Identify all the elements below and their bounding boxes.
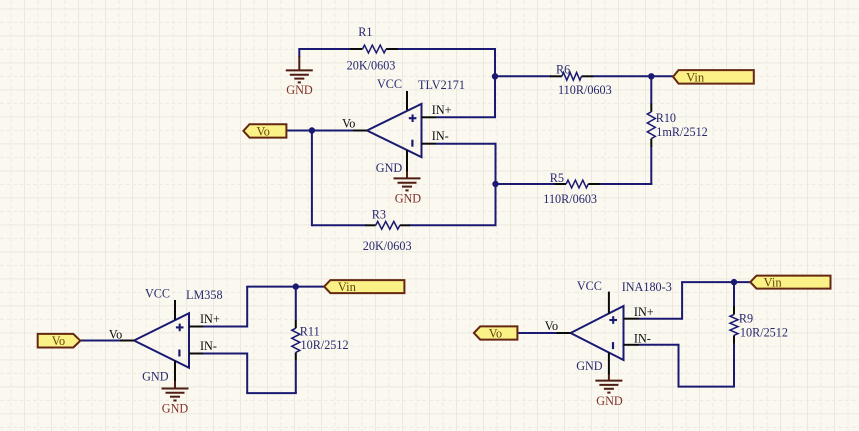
svg-text:R10: R10 bbox=[656, 111, 676, 125]
svg-text:110R/0603: 110R/0603 bbox=[558, 83, 612, 97]
svg-text:GND: GND bbox=[395, 192, 422, 206]
svg-text:R11: R11 bbox=[300, 325, 320, 339]
svg-text:R3: R3 bbox=[372, 208, 386, 222]
svg-text:GND: GND bbox=[142, 370, 169, 384]
svg-text:VCC: VCC bbox=[577, 279, 602, 293]
svg-text:GND: GND bbox=[162, 401, 189, 415]
svg-text:Vin: Vin bbox=[764, 276, 783, 290]
svg-text:110R/0603: 110R/0603 bbox=[543, 192, 597, 206]
svg-text:GND: GND bbox=[376, 161, 403, 175]
svg-text:GND: GND bbox=[596, 394, 623, 408]
svg-text:20K/0603: 20K/0603 bbox=[347, 59, 396, 73]
svg-text:R9: R9 bbox=[739, 312, 753, 326]
svg-text:R6: R6 bbox=[556, 63, 570, 77]
svg-text:1mR/2512: 1mR/2512 bbox=[656, 125, 707, 139]
svg-text:LM358: LM358 bbox=[186, 288, 223, 302]
svg-text:Vo: Vo bbox=[52, 334, 65, 348]
svg-text:GND: GND bbox=[286, 83, 313, 97]
svg-text:VCC: VCC bbox=[145, 287, 170, 301]
svg-text:20K/0603: 20K/0603 bbox=[363, 239, 412, 253]
svg-text:Vo: Vo bbox=[545, 319, 558, 333]
svg-text:VCC: VCC bbox=[377, 77, 402, 91]
svg-text:IN-: IN- bbox=[432, 129, 449, 143]
svg-text:IN-: IN- bbox=[200, 339, 217, 353]
svg-text:IN-: IN- bbox=[634, 331, 651, 345]
svg-text:10R/2512: 10R/2512 bbox=[740, 325, 788, 339]
svg-text:TLV2171: TLV2171 bbox=[418, 78, 465, 92]
svg-text:R5: R5 bbox=[550, 171, 564, 185]
svg-text:Vo: Vo bbox=[257, 124, 270, 138]
svg-text:IN+: IN+ bbox=[200, 312, 220, 326]
svg-text:Vin: Vin bbox=[338, 280, 357, 294]
svg-text:INA180-3: INA180-3 bbox=[622, 280, 672, 294]
svg-text:IN+: IN+ bbox=[432, 103, 452, 117]
svg-text:IN+: IN+ bbox=[634, 305, 654, 319]
svg-text:Vo: Vo bbox=[342, 117, 355, 131]
svg-text:Vin: Vin bbox=[686, 70, 705, 84]
svg-text:R1: R1 bbox=[358, 25, 372, 39]
svg-text:Vo: Vo bbox=[489, 326, 502, 340]
svg-text:GND: GND bbox=[576, 359, 603, 373]
svg-text:10R/2512: 10R/2512 bbox=[301, 338, 349, 352]
svg-text:Vo: Vo bbox=[109, 327, 122, 341]
